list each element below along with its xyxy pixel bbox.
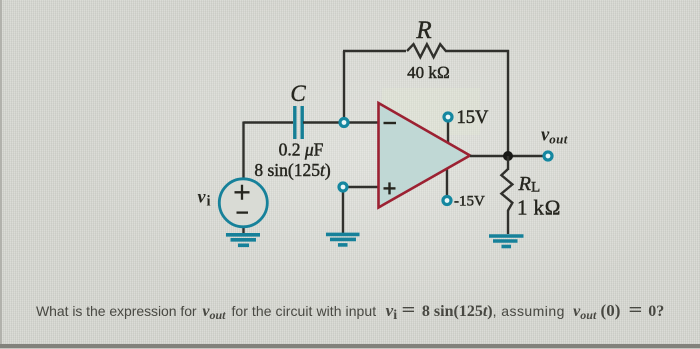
label 8 sin(125t) (254, 160, 331, 180)
wire feedback right vertical (507, 50, 509, 156)
label R (415, 17, 431, 44)
svg-text:0.2 μF: 0.2 μF (279, 140, 324, 160)
svg-text:15V: 15V (457, 108, 490, 128)
svg-text:vout: vout (541, 126, 568, 147)
ground RL (489, 236, 524, 247)
svg-text:40 kΩ: 40 kΩ (407, 63, 450, 82)
wire negative supply pin (446, 168, 448, 196)
svg-text:1 kΩ: 1 kΩ (517, 196, 561, 220)
wire source top vertical (242, 122, 244, 180)
label 0.2 uF (279, 140, 324, 160)
resistor RL (501, 169, 512, 211)
svg-text:vi: vi (198, 187, 211, 210)
op-amp U1 (379, 103, 471, 208)
wire noninverting input (343, 186, 378, 188)
wire output (470, 155, 543, 157)
junction output node (503, 151, 513, 161)
source vi (219, 179, 267, 227)
svg-text:8 sin(125t): 8 sin(125t) (254, 160, 331, 180)
op-amp plus mark (384, 182, 396, 194)
wire noninverting to ground (342, 187, 344, 233)
wire feedback left vertical (343, 51, 345, 123)
wire RL top (507, 156, 509, 170)
terminal inverting node (340, 119, 348, 127)
wire RL bottom (507, 210, 509, 234)
label vout (541, 126, 568, 147)
label vi (198, 187, 211, 210)
ground noninverting (326, 234, 360, 245)
svg-text:R: R (415, 17, 431, 44)
wire source bottom stub (242, 227, 244, 234)
svg-text:RL: RL (518, 173, 541, 196)
ground source (226, 235, 260, 246)
terminal noninverting node (339, 183, 347, 191)
terminal +15V (444, 113, 452, 121)
label 40 kOhm (407, 63, 450, 82)
label 1 kOhm (517, 196, 561, 220)
question text (36, 300, 700, 324)
capacitor C (295, 106, 302, 139)
label RL (518, 173, 541, 196)
resistor R (407, 44, 446, 57)
svg-text:-15V: -15V (454, 194, 485, 210)
label C (290, 81, 306, 106)
wire positive supply pin (447, 121, 449, 143)
op-amp minus mark (384, 122, 397, 124)
wire feedback top right (445, 50, 509, 52)
svg-text:C: C (290, 81, 306, 106)
label -15V (454, 194, 485, 210)
wire feedback top left (343, 50, 406, 52)
wire source top horizontal (244, 121, 294, 123)
terminal vout (544, 152, 552, 160)
terminal -15V (443, 197, 451, 205)
wire inverting input (303, 121, 378, 123)
label 15V (457, 108, 490, 128)
highlight tint behind op-amp (382, 88, 480, 135)
